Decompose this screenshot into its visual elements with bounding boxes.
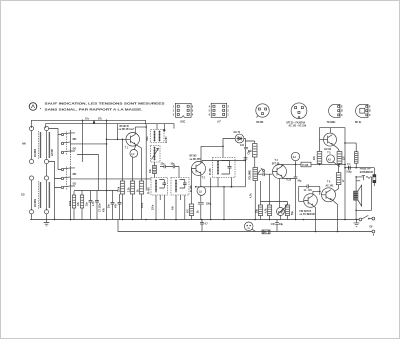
wire T1 collector top xyxy=(135,126,146,128)
trimmer cap 17a/17b xyxy=(85,118,102,123)
earphone symbol xyxy=(244,222,255,232)
connector box xyxy=(262,230,270,234)
svg-text:AC 151 - AC 158: AC 151 - AC 158 xyxy=(289,125,307,128)
wire col2 lower xyxy=(46,180,48,210)
svg-text:BF195: BF195 xyxy=(190,155,198,157)
volume pot xyxy=(249,168,260,220)
svg-text:10n: 10n xyxy=(87,201,89,206)
wire col1 lower xyxy=(31,180,33,210)
svg-text:BF 9x: BF 9x xyxy=(355,122,362,124)
wire T7 down to bus2 xyxy=(337,205,339,232)
wire agc row xyxy=(196,186,246,188)
resistor R4 xyxy=(77,191,84,220)
capacitor C7 xyxy=(240,145,248,187)
svg-text:2x780: 2x780 xyxy=(166,136,168,143)
coil L4 lower xyxy=(48,182,50,208)
voltage circle V2 xyxy=(197,177,206,201)
svg-text:50µ: 50µ xyxy=(292,210,294,215)
thermistor xyxy=(277,179,288,220)
capacitor C2 xyxy=(87,191,93,220)
mid rail xyxy=(311,163,345,165)
svg-text:AC142: AC142 xyxy=(324,148,332,151)
svg-text:CTN: CTN xyxy=(282,209,284,214)
svg-text:10n: 10n xyxy=(248,151,253,153)
wire diode feed xyxy=(223,139,235,158)
svg-text:FW 5270 B: FW 5270 B xyxy=(300,211,312,213)
svg-text:220k: 220k xyxy=(118,186,120,192)
headphone jack xyxy=(356,176,371,181)
svg-text:SAUF INDICATION, LES TENSIONS: SAUF INDICATION, LES TENSIONS SONT MESUR… xyxy=(45,101,165,105)
vertical from inner rail xyxy=(117,124,119,140)
resistor R5 xyxy=(118,139,124,219)
wire T4 collector xyxy=(282,164,301,166)
svg-text:4,7k: 4,7k xyxy=(250,193,253,198)
wire IF3 pins down xyxy=(211,178,232,220)
main bus xyxy=(30,219,359,221)
transistor pinout TO case D1 xyxy=(327,104,344,124)
resistor R10 xyxy=(187,169,194,220)
wire diode out xyxy=(244,139,246,148)
wire T6 base xyxy=(320,139,324,141)
wire T6 collector xyxy=(330,128,332,133)
bus2 xyxy=(118,220,372,232)
transistor T4 xyxy=(273,164,287,179)
transistor T2 xyxy=(192,146,206,186)
svg-text:ou BF 254 ou?: ou BF 254 ou? xyxy=(119,128,135,131)
resistor R8 xyxy=(153,162,157,178)
svg-text:GO: GO xyxy=(73,148,77,150)
svg-text:PRISE HP: PRISE HP xyxy=(360,168,371,170)
capacitor C4 xyxy=(109,191,115,220)
wire gang1 out 2 xyxy=(77,155,98,191)
capacitor C12 xyxy=(200,220,208,232)
resistor R11 xyxy=(248,144,257,168)
svg-text:P 125: P 125 xyxy=(302,165,309,167)
wire agc xyxy=(202,161,245,163)
coil L2 upper xyxy=(48,132,53,158)
osc transformer box xyxy=(147,130,164,143)
transistor T1 xyxy=(126,127,140,146)
svg-text:100n: 100n xyxy=(142,202,144,208)
svg-text:4,7n: 4,7n xyxy=(92,201,95,206)
transistor T7 xyxy=(322,188,338,205)
svg-text:SFT.25 - FA2070A: SFT.25 - FA2070A xyxy=(286,121,305,124)
jack socket xyxy=(373,168,376,186)
capacitor C9 electrolytic xyxy=(282,164,302,219)
svg-text:2103B2: 2103B2 xyxy=(35,148,37,157)
IC pinout OSC xyxy=(173,103,194,123)
electrolytic C11 xyxy=(345,143,358,173)
output cage rectangle xyxy=(320,128,346,220)
trimmer blob xyxy=(163,124,165,132)
node row y190.5 xyxy=(74,190,118,192)
antenna terminal circles column 1 xyxy=(29,126,33,213)
svg-text:10n: 10n xyxy=(109,203,111,208)
driver resistor P1 xyxy=(301,162,311,167)
switch S1 xyxy=(359,215,375,221)
svg-text:100n: 100n xyxy=(152,204,154,210)
resistor R15 xyxy=(317,152,322,165)
svg-text:GO: GO xyxy=(73,183,77,185)
resistor R12 xyxy=(256,181,262,220)
svg-text:4200B: 4200B xyxy=(51,149,54,156)
svg-text:TO 889x: TO 889x xyxy=(327,122,337,124)
wire jack to speaker xyxy=(355,177,357,191)
svg-text:2,2k: 2,2k xyxy=(128,187,130,192)
wire T6 emitter xyxy=(332,145,339,152)
coil L3 lower xyxy=(35,181,41,209)
svg-text:SANS SIGNAL, PAR RAPPORT A LA: SANS SIGNAL, PAR RAPPORT A LA MASSE. xyxy=(45,107,143,111)
capacitor C14 xyxy=(198,202,212,219)
antenna terminal circles column 2 xyxy=(44,126,48,213)
svg-text:BF195: BF195 xyxy=(256,122,264,124)
IF transformer 1 xyxy=(147,178,167,196)
svg-text:OSC: OSC xyxy=(180,121,185,123)
svg-text:OSC: OSC xyxy=(147,136,149,141)
svg-text:BF194 B: BF194 B xyxy=(120,125,130,128)
resistor R3 xyxy=(70,191,76,220)
resistor R7 xyxy=(137,181,143,220)
diode D1 xyxy=(235,134,244,143)
svg-text:100µ: 100µ xyxy=(346,171,352,173)
capacitor C6 xyxy=(142,124,146,208)
wire tap upper xyxy=(49,129,62,170)
wire col1 upper xyxy=(31,131,33,160)
ground left xyxy=(44,220,50,226)
note meter icon xyxy=(29,103,41,111)
svg-text:0,15: 0,15 xyxy=(287,180,292,182)
wire terminals to bus xyxy=(32,214,47,220)
wire tap mid xyxy=(49,162,62,220)
wire gang2 to bus xyxy=(70,187,72,220)
tuning coil box xyxy=(151,146,161,163)
svg-text:ou BF 255: ou BF 255 xyxy=(190,159,202,161)
wire IF2 bottom pins xyxy=(176,195,185,220)
svg-text:MO: MO xyxy=(73,139,77,141)
voltage circle V3 xyxy=(291,152,299,164)
svg-text:C7 100n: C7 100n xyxy=(100,203,102,212)
svg-text:22n: 22n xyxy=(161,164,166,166)
resistor R17 xyxy=(334,164,341,191)
svg-text:11 - 47n: 11 - 47n xyxy=(304,189,313,192)
battery terminal bus2 xyxy=(372,230,375,236)
svg-text:17b: 17b xyxy=(98,118,103,120)
resistor R13 xyxy=(264,174,271,219)
IF transformer 3 xyxy=(209,158,235,178)
svg-text:MO: MO xyxy=(73,174,77,176)
switch gang 2 xyxy=(61,167,77,191)
long vertical feed xyxy=(106,120,108,219)
wire right loop xyxy=(356,177,371,210)
wire feedback row xyxy=(261,201,288,203)
svg-text:4,7k: 4,7k xyxy=(264,208,267,213)
capacitor C13 xyxy=(271,220,284,232)
IC pinout AF xyxy=(209,103,230,123)
capacitor C8 xyxy=(261,169,273,176)
svg-text:44µ: 44µ xyxy=(279,223,284,226)
svg-text:FI 455: FI 455 xyxy=(147,187,150,194)
coupling caps row xyxy=(160,164,179,178)
switch gang 1 xyxy=(61,132,77,156)
coil L1 upper xyxy=(35,131,41,159)
svg-text:100k: 100k xyxy=(70,200,72,206)
svg-text:VOLUME: VOLUME xyxy=(249,170,251,180)
svg-text:FI 455: FI 455 xyxy=(209,168,212,175)
resistor R14 xyxy=(285,202,289,220)
wire T2 collector to IF3 xyxy=(201,145,223,147)
wire gang1 to rail xyxy=(71,120,83,162)
IF transformer 2 xyxy=(171,178,193,196)
svg-text:GO: GO xyxy=(21,195,25,197)
voltage circle V1 xyxy=(130,144,142,181)
svg-text:2103B1: 2103B1 xyxy=(35,198,37,207)
voltage circle V4 xyxy=(327,155,340,167)
transistor pinout BF195 xyxy=(256,104,269,124)
capacitor C10 xyxy=(299,184,320,201)
wire det node xyxy=(245,141,254,144)
svg-text:AM: AM xyxy=(22,143,26,146)
wire col2 upper xyxy=(46,131,48,176)
svg-text:A F: A F xyxy=(217,120,221,123)
speaker xyxy=(354,185,362,206)
transistor pinout SFT xyxy=(286,103,307,128)
top rail outer xyxy=(32,120,146,128)
wire speaker bottom xyxy=(355,200,357,219)
wire gang2 out to IF1 xyxy=(77,178,151,180)
svg-text:10n: 10n xyxy=(171,164,176,166)
capacitor C5 xyxy=(115,194,122,220)
svg-text:50µ: 50µ xyxy=(298,181,303,183)
resistor R6 xyxy=(128,157,134,220)
wire gang1-gang2 xyxy=(70,152,72,168)
top rail inner xyxy=(46,124,174,129)
transistor pinout TO case D2 xyxy=(355,104,371,124)
transistor T6 xyxy=(324,133,337,146)
svg-text:OA 70: OA 70 xyxy=(234,131,241,134)
ground right xyxy=(354,220,360,227)
resistor R16 xyxy=(337,152,342,165)
wire gang1 out to T1 base xyxy=(77,143,107,145)
capacitor C3 xyxy=(92,191,99,220)
svg-text:ou TC-BER 86: ou TC-BER 86 xyxy=(300,214,316,216)
svg-text:EXTERIEUR: EXTERIEUR xyxy=(360,172,373,174)
transistor T5 xyxy=(304,191,321,233)
svg-text:AC 142: AC 142 xyxy=(326,184,335,187)
wire IF1 bottom pins xyxy=(156,195,164,220)
